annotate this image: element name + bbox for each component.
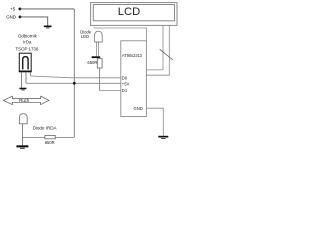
wire 650R to IR diode (bottom) xyxy=(55,136,74,138)
pin 3 TSOP (data out) xyxy=(29,72,31,76)
svg-text:D0: D0 xyxy=(122,75,128,80)
svg-text:GND: GND xyxy=(6,15,16,20)
node GND junction dot xyxy=(19,16,22,19)
wire LED anode to MCU top xyxy=(94,28,147,41)
svg-text:LCD: LCD xyxy=(118,6,141,18)
svg-text:LED: LED xyxy=(81,34,89,39)
IR receiver U2 TSOP1736 body xyxy=(19,53,32,71)
wire D1 net to MCU xyxy=(99,89,120,91)
wire +5 rail horizontal xyxy=(20,8,74,10)
ground (MCU) xyxy=(158,136,168,139)
resistor R2 650R (horizontal) xyxy=(45,135,55,138)
svg-text:Ruch: Ruch xyxy=(19,98,29,103)
wire resistor to D1 net xyxy=(98,68,100,90)
ground (TSOP) xyxy=(19,88,26,91)
svg-text:+5: +5 xyxy=(10,7,16,12)
wire +5 vertical feed xyxy=(73,9,75,138)
svg-text:+5V: +5V xyxy=(122,81,130,86)
svg-text:650R: 650R xyxy=(45,140,55,145)
MCU U1 AT90s2313 body xyxy=(121,41,147,117)
wire GND rail xyxy=(20,17,48,26)
pin 1 TSOP (to ground) xyxy=(20,72,22,87)
svg-text:Diode IRDA: Diode IRDA xyxy=(33,126,58,131)
ground (top-left) xyxy=(44,26,52,29)
LED cathode stem xyxy=(96,42,98,56)
LED cathode bar xyxy=(92,56,101,58)
svg-text:TSOP 1736: TSOP 1736 xyxy=(15,47,38,52)
LCD display window xyxy=(93,5,174,21)
wire MCU GND xyxy=(146,108,163,136)
bus slash mark xyxy=(160,49,173,60)
motion arrow Ruch xyxy=(3,96,49,104)
wire IR LED cathode lead xyxy=(22,124,24,146)
LED D1 dome xyxy=(94,31,102,42)
svg-text:AT90s2313: AT90s2313 xyxy=(122,53,143,58)
wire LCD pin 2 to MCU xyxy=(146,25,169,75)
node +5 junction dot xyxy=(19,7,22,10)
wire LCD pin 1 to MCU xyxy=(146,25,163,70)
wire resistor to IR LED lead xyxy=(23,136,45,138)
LCD module outer frame xyxy=(91,3,177,26)
ground (IR LED) xyxy=(16,145,28,149)
node junction +5V feed xyxy=(73,82,76,85)
pin 2 TSOP (+5V) xyxy=(25,72,27,83)
svg-text:GND: GND xyxy=(133,106,142,111)
svg-text:D1: D1 xyxy=(122,88,128,93)
svg-text:650R: 650R xyxy=(87,60,97,65)
svg-text:Odbiornik: Odbiornik xyxy=(18,33,38,38)
IR transmit diode D2 (dome) xyxy=(19,114,27,124)
wire D0 net (TSOP out to MCU D0) xyxy=(30,76,121,78)
svg-text:IrDa: IrDa xyxy=(23,40,32,45)
wire +5V net (TSOP to MCU +5V) xyxy=(26,82,121,84)
resistor R1 650R (vertical) xyxy=(97,58,102,68)
IR receiver dome window xyxy=(23,57,28,70)
